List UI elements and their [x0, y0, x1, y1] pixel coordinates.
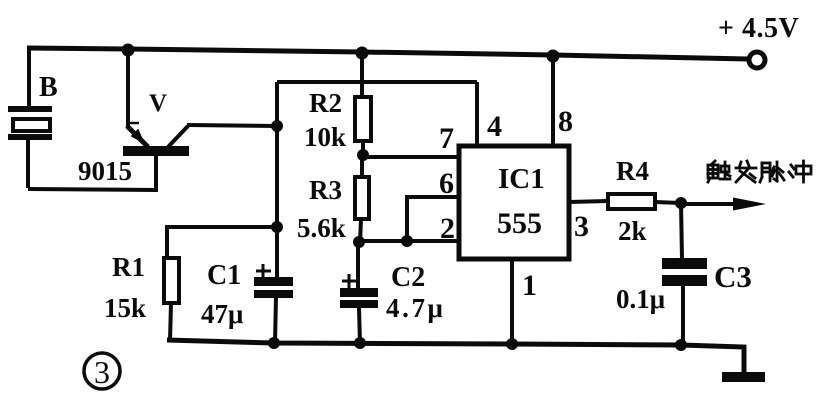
wire: pin 8 drop — [551, 55, 555, 146]
terminal: +4.5V supply terminal circle — [749, 52, 765, 68]
svg-text:5.6k: 5.6k — [297, 213, 346, 243]
svg-text:4: 4 — [487, 110, 502, 143]
resistor R3 body — [355, 177, 369, 219]
node: rail junction at transistor emitter — [122, 44, 135, 57]
svg-text:IC1: IC1 — [498, 163, 545, 195]
wire: +4.5V top power rail — [27, 48, 748, 59]
capacitor C2 top plate — [340, 288, 378, 297]
node: output junction — [675, 197, 687, 209]
node: bottom junction at C3 — [675, 339, 687, 351]
svg-text:C1: C1 — [207, 260, 241, 291]
hanzi: fa — [736, 161, 756, 182]
svg-text:+ 4.5V: + 4.5V — [718, 13, 799, 44]
label: chufa maichong (trigger pulse) hand-drawn hanzi — [708, 161, 811, 182]
svg-text:V: V — [149, 90, 167, 117]
wire: pin 3 output — [569, 201, 608, 202]
svg-text:2: 2 — [440, 212, 455, 245]
svg-text:C3: C3 — [714, 259, 752, 294]
svg-text:R4: R4 — [616, 156, 649, 186]
wire: R4 to output node — [655, 202, 681, 203]
svg-text:8: 8 — [558, 105, 573, 138]
wire: C3 top lead — [681, 203, 682, 259]
figure number circle 3 — [84, 353, 120, 389]
svg-text:R2: R2 — [309, 88, 342, 118]
svg-text:B: B — [39, 72, 58, 103]
svg-text:3: 3 — [574, 210, 589, 243]
wire: B bottom lead — [26, 140, 30, 188]
capacitor C2 plus sign — [342, 274, 357, 289]
svg-text:10k: 10k — [304, 122, 346, 152]
wire: emitter lead from rail — [126, 49, 130, 127]
hanzi: mai — [760, 162, 784, 182]
resistor R1 body — [164, 258, 179, 303]
capacitor C1 plus sign — [256, 264, 271, 279]
wire: R2 top lead — [360, 52, 364, 97]
node: collector junction — [271, 120, 283, 132]
resistor R2 body — [355, 97, 371, 141]
wire: R3 top lead — [360, 155, 364, 177]
transistor V collector diagonal — [168, 126, 188, 147]
wire: C2 top lead — [356, 242, 360, 289]
transistor V base bar — [123, 146, 189, 156]
wire: vertical trunk from pin4 corner down to C1 — [275, 82, 279, 278]
buzzer B body rectangle — [13, 119, 50, 131]
capacitor C2 bottom plate — [340, 300, 378, 308]
wire: pin 4 horizontal run — [277, 80, 477, 84]
wire: R2 bottom lead — [361, 141, 365, 157]
wire: R3 bottom lead — [360, 219, 361, 243]
wire: B bottom to transistor base — [28, 150, 156, 190]
wire: B top lead to rail — [27, 48, 31, 107]
svg-text:0.1μ: 0.1μ — [616, 284, 665, 314]
svg-text:3: 3 — [94, 354, 110, 390]
node: bottom junction at C1 — [268, 337, 280, 349]
transistor V emitter tick — [126, 122, 139, 125]
capacitor C3 top plate — [662, 258, 707, 269]
svg-text:R3: R3 — [309, 175, 342, 205]
svg-text:9015: 9015 — [78, 156, 132, 186]
svg-text:6: 6 — [439, 167, 454, 200]
wire: R1 branch top — [167, 227, 277, 258]
wire: C2 bottom lead — [359, 308, 360, 343]
ground symbol bar — [722, 372, 765, 382]
capacitor C1 bottom plate — [254, 290, 293, 298]
svg-text:2k: 2k — [618, 216, 647, 246]
svg-text:C2: C2 — [391, 262, 425, 293]
svg-text:R1: R1 — [112, 252, 145, 282]
wire: pin 4 drop to IC top — [475, 82, 479, 146]
wire: R1 bottom lead — [170, 303, 171, 341]
capacitor C1 top plate — [254, 277, 293, 286]
svg-text:15k: 15k — [104, 293, 146, 323]
svg-text:4.7μ: 4.7μ — [386, 293, 445, 323]
wire: pin 2 horizontal — [359, 239, 461, 243]
node: R3 bottom junction — [353, 236, 365, 248]
node: pin2-pin6 junction — [401, 235, 413, 247]
wire: pin 7 horizontal — [363, 155, 461, 159]
buzzer B top plate — [8, 106, 52, 112]
svg-text:7: 7 — [439, 122, 454, 155]
node: bottom junction at C2 — [354, 337, 366, 349]
svg-text:47μ: 47μ — [201, 299, 243, 329]
node: C1 top junction — [271, 221, 283, 233]
node: R2-R3 junction — [357, 149, 369, 161]
transistor V emitter diagonal with PNP arrow — [127, 126, 148, 147]
wire: C3 bottom lead — [681, 286, 685, 346]
buzzer B bottom plate — [8, 134, 52, 140]
wire: ground bottom rail — [167, 340, 744, 374]
svg-text:1: 1 — [522, 269, 537, 302]
wire: collector to junction node — [187, 125, 277, 126]
wire: pin 6 link — [407, 197, 461, 241]
wire: pin 1 drop to ground rail — [510, 259, 514, 344]
resistor R4 body — [608, 194, 655, 209]
hanzi: chu — [708, 161, 730, 182]
node: rail junction at pin 8 — [547, 50, 560, 63]
op-amp IC1 555 timer body — [459, 146, 569, 259]
node: bottom junction at pin 1 — [506, 338, 518, 350]
wire: C1 bottom lead — [275, 297, 276, 343]
node: rail junction at R2 — [356, 47, 369, 60]
capacitor C3 bottom plate — [662, 275, 707, 286]
wire: output line with arrow — [681, 202, 740, 206]
svg-text:555: 555 — [497, 207, 542, 240]
hanzi: chong — [789, 161, 811, 182]
